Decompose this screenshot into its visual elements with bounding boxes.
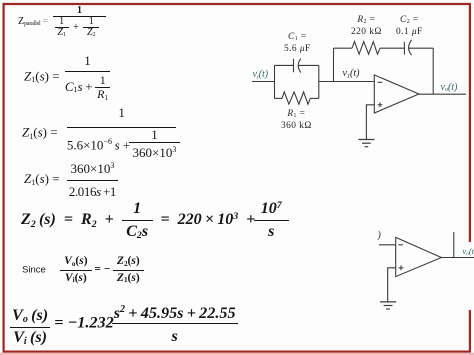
wire: U2 minus input stub bbox=[379, 244, 396, 246]
wire: box to op-amp minus input, node v1 bbox=[319, 81, 375, 83]
capacitor C1 curved plate bbox=[298, 59, 301, 73]
equation 2: Z1(s)=1/(C1s+1/R1) bbox=[24, 54, 110, 101]
U2 cropped input label ")" bbox=[378, 231, 381, 241]
capacitor C1 flat plate bbox=[293, 59, 295, 72]
equation 1: Zparallel bbox=[18, 6, 106, 37]
wire: op-amp U1 output vo bbox=[419, 93, 466, 95]
wire: U2 output vertical stub bbox=[453, 232, 455, 258]
equation 6: Since Vo/Vi=-Z2/Z1 bbox=[22, 256, 144, 284]
capacitor C2 flat plate bbox=[403, 42, 405, 55]
wire: feedback top to resistor R2 bbox=[334, 47, 353, 49]
ground symbol (top circuit) bbox=[358, 139, 374, 141]
border frame bottom pink blur edge bbox=[0, 353, 474, 355]
label R1 value bbox=[281, 108, 312, 132]
ground symbol (bottom circuit) bbox=[380, 301, 396, 303]
wire: U2 output to right edge bbox=[441, 257, 474, 259]
wire: input vi to parallel box bbox=[252, 81, 275, 83]
wire: top branch to capacitor C1 bbox=[275, 64, 294, 66]
equation 5: Z2(s) bbox=[21, 201, 289, 240]
wire: resistor R1 to box right bbox=[310, 97, 319, 99]
node box left edge bbox=[274, 65, 276, 98]
op-amp U2 minus sign bbox=[398, 244, 403, 246]
wire: capacitor C2 to feedback right corner bbox=[409, 47, 434, 49]
border frame right lower segment bbox=[469, 310, 471, 352]
node label vo(t) bbox=[441, 83, 458, 93]
border frame right upper segment bbox=[469, 4, 471, 242]
node box right edge bbox=[318, 65, 320, 98]
op-amp U1 plus sign bbox=[378, 104, 383, 106]
capacitor C2 curved plate bbox=[409, 40, 412, 55]
wire: bottom branch left to resistor R1 bbox=[275, 97, 283, 99]
wire: op-amp U1 plus input to ground bbox=[366, 105, 374, 140]
equation 4: Z1(s) simplified bbox=[24, 162, 118, 198]
wire: capacitor C1 to box right bbox=[298, 64, 319, 66]
op-amp U1 minus sign bbox=[378, 81, 383, 83]
op-amp U1 triangle bbox=[374, 75, 419, 113]
equation 7: final transfer function bbox=[10, 303, 238, 344]
resistor R1 zigzag bbox=[282, 92, 310, 104]
U2 cropped output label vo bbox=[463, 247, 474, 256]
wire: U2 plus input to ground bbox=[388, 268, 396, 302]
resistor R2 zigzag bbox=[352, 42, 380, 55]
label C1 value bbox=[284, 31, 311, 55]
wire: feedback left vertical from node v1 bbox=[333, 48, 335, 81]
node label v1(t) bbox=[343, 69, 360, 79]
equation 3: Z1(s) numeric bbox=[22, 106, 176, 161]
label C2 value bbox=[396, 14, 423, 38]
border frame bottom bbox=[3, 351, 472, 353]
op-amp U2 plus sign bbox=[399, 267, 404, 269]
wire: feedback right vertical down to output bbox=[432, 48, 434, 94]
node label vi(t) bbox=[253, 70, 269, 80]
border frame top bbox=[3, 3, 472, 5]
op-amp U2 triangle (bottom right) bbox=[396, 237, 442, 276]
border frame left bbox=[2, 4, 4, 352]
wire: resistor R2 to capacitor C2 bbox=[380, 47, 404, 49]
label R2 value bbox=[351, 14, 382, 38]
